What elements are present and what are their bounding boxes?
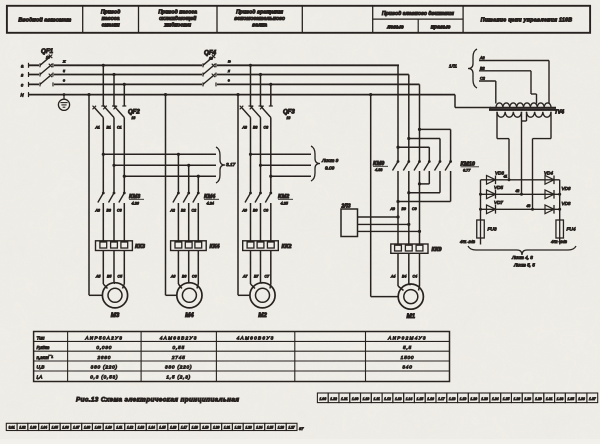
brace sheet ref 3.17 bbox=[216, 147, 236, 183]
wire secondary lead 1 to bridge node 41 bbox=[497, 112, 509, 180]
svg-text:В2: В2 bbox=[480, 66, 486, 70]
circuit breaker QF2 bbox=[93, 106, 141, 120]
header text: Привод насоса смазки bbox=[101, 10, 121, 29]
svg-text:1.18: 1.18 bbox=[192, 426, 198, 430]
wires QF2 to KM3 with labels A1 B1 C1 bbox=[95, 118, 125, 194]
wire M4 neutral bbox=[164, 93, 177, 295]
svg-text:В7: В7 bbox=[254, 275, 259, 279]
svg-text:ж: ж bbox=[62, 60, 66, 64]
svg-text:М4: М4 bbox=[185, 312, 194, 319]
contactor KM3 bbox=[98, 192, 144, 206]
svg-text:1.08: 1.08 bbox=[84, 426, 90, 430]
svg-text:охлаждающей: охлаждающей bbox=[159, 15, 197, 22]
caption Рис.13 bbox=[76, 397, 239, 404]
svg-text:n,мин¯¹: n,мин¯¹ bbox=[37, 354, 54, 360]
svg-text:1.21: 1.21 bbox=[224, 426, 230, 430]
diode VD4 bbox=[544, 171, 554, 185]
svg-text:4АМ60В6У3: 4АМ60В6У3 bbox=[237, 335, 275, 340]
svg-text:Привод вращения: Привод вращения bbox=[236, 10, 283, 16]
wire secondary lead 2 to bridge node 43 bbox=[533, 112, 552, 210]
svg-text:А5: А5 bbox=[95, 275, 100, 279]
node 42 bbox=[516, 189, 524, 196]
svg-text:В9: В9 bbox=[402, 207, 406, 211]
svg-text:3.17: 3.17 bbox=[226, 162, 236, 168]
svg-text:В5: В5 bbox=[107, 275, 111, 279]
svg-text:правые: правые bbox=[431, 24, 451, 30]
svg-text:VD5: VD5 bbox=[494, 185, 503, 190]
svg-text:QF1: QF1 bbox=[41, 48, 54, 55]
svg-text:С7: С7 bbox=[265, 275, 271, 279]
svg-text:0,55: 0,55 bbox=[173, 345, 185, 350]
svg-text:1.10: 1.10 bbox=[363, 397, 370, 401]
svg-text:2660: 2660 bbox=[96, 355, 111, 360]
svg-text:N: N bbox=[21, 93, 25, 98]
svg-text:жидкости: жидкости bbox=[163, 23, 191, 29]
header zone table bbox=[7, 6, 590, 33]
svg-text:1.16: 1.16 bbox=[427, 397, 434, 401]
svg-text:А1: А1 bbox=[95, 126, 100, 130]
svg-text:0,3 (0,53): 0,3 (0,53) bbox=[90, 375, 118, 380]
svg-text:U,В: U,В bbox=[37, 365, 45, 370]
svg-text:А2: А2 bbox=[170, 209, 175, 213]
svg-text:КК2: КК2 bbox=[282, 244, 293, 250]
svg-text:1.19: 1.19 bbox=[202, 426, 208, 430]
svg-text:в: в bbox=[21, 73, 24, 78]
svg-text:смазки: смазки bbox=[102, 23, 121, 29]
svg-text:1.27: 1.27 bbox=[289, 426, 295, 430]
svg-text:В0: В0 bbox=[253, 209, 257, 213]
svg-text:42: 42 bbox=[516, 189, 520, 193]
wire bus phase C bbox=[28, 82, 420, 87]
svg-text:АИР92М4У3: АИР92М4У3 bbox=[387, 335, 427, 340]
wire cross-feed phase B to KM10 bbox=[407, 137, 440, 162]
svg-text:1.19: 1.19 bbox=[460, 397, 467, 401]
svg-text:1.23: 1.23 bbox=[481, 397, 488, 401]
wires KM2 to KK2 labels A0 B0 C0 bbox=[242, 203, 271, 241]
svg-text:1.15: 1.15 bbox=[159, 426, 165, 430]
svg-text:340: 340 bbox=[402, 365, 412, 370]
svg-text:АИР50А2У3: АИР50А2У3 bbox=[84, 335, 123, 340]
svg-text:4.24: 4.24 bbox=[207, 202, 214, 206]
svg-text:1.12: 1.12 bbox=[127, 426, 133, 430]
svg-text:насоса: насоса bbox=[102, 16, 120, 22]
contactor KM10 bbox=[424, 160, 479, 172]
wire M4 branch drops from tap lines bbox=[177, 153, 200, 193]
svg-text:1.31: 1.31 bbox=[546, 397, 553, 401]
svg-text:С4: С4 bbox=[413, 275, 418, 279]
node 43 bbox=[527, 204, 535, 211]
header text: Привод насоса охлаждающей жидкости bbox=[158, 10, 197, 29]
svg-text:С6: С6 bbox=[192, 275, 197, 279]
tap wires to sheet 3.17 bbox=[102, 153, 216, 178]
svg-text:1.22: 1.22 bbox=[235, 426, 241, 430]
svg-text:43: 43 bbox=[527, 204, 531, 208]
svg-text:QF3: QF3 bbox=[283, 110, 295, 116]
svg-text:1.25: 1.25 bbox=[267, 426, 273, 430]
svg-text:1.28: 1.28 bbox=[524, 397, 531, 401]
svg-text:QF4: QF4 bbox=[204, 50, 217, 57]
svg-text:1.25: 1.25 bbox=[503, 397, 510, 401]
svg-text:97: 97 bbox=[299, 426, 304, 431]
svg-text:А6: А6 bbox=[170, 275, 175, 279]
svg-text:1.33: 1.33 bbox=[557, 397, 564, 401]
svg-text:М2: М2 bbox=[258, 312, 267, 319]
svg-text:1.11: 1.11 bbox=[116, 426, 122, 430]
svg-text:С3: С3 bbox=[117, 209, 122, 213]
svg-text:2Л3: 2Л3 bbox=[341, 204, 351, 210]
fuse FU3 bbox=[477, 220, 497, 238]
svg-text:Р,кВт: Р,кВт bbox=[37, 345, 50, 350]
wire M1 neutral bbox=[369, 93, 398, 297]
svg-text:1.35: 1.35 bbox=[567, 397, 574, 401]
svg-text:Лист 5, 5: Лист 5, 5 bbox=[513, 263, 535, 268]
svg-text:Привод насоса: Привод насоса bbox=[158, 10, 197, 16]
svg-text:левые: левые bbox=[386, 24, 404, 30]
wire bus drop phase B to KM9 bbox=[408, 75, 410, 162]
svg-text:Привод: Привод bbox=[101, 10, 121, 16]
transformer TV4 core bbox=[489, 110, 564, 116]
svg-text:В2: В2 bbox=[181, 209, 185, 213]
svg-text:16: 16 bbox=[287, 116, 291, 120]
motor M2 bbox=[250, 283, 275, 319]
wires KM4 to KK4 labels A2 B2 C2 bbox=[170, 203, 199, 241]
svg-text:1.17: 1.17 bbox=[181, 426, 187, 430]
motor M4 bbox=[177, 283, 202, 319]
svg-text:С2: С2 bbox=[480, 77, 486, 81]
svg-text:0,090: 0,090 bbox=[96, 345, 112, 350]
bridge row 1 wire bbox=[481, 179, 560, 181]
svg-text:1.09: 1.09 bbox=[95, 426, 101, 430]
svg-text:Питание цепи управления 110В: Питание цепи управления 110В bbox=[481, 18, 573, 24]
svg-text:Привод главного движения: Привод главного движения bbox=[382, 11, 454, 17]
node labels a b c N left ends bbox=[21, 63, 25, 97]
svg-text:В4: В4 bbox=[402, 275, 406, 279]
wire FU4 output +24V bbox=[551, 238, 568, 245]
svg-text:1.15: 1.15 bbox=[417, 397, 424, 401]
node 41 bbox=[504, 175, 511, 182]
tap wires to sheet 9.09 bbox=[249, 153, 311, 178]
svg-text:С5: С5 bbox=[118, 275, 123, 279]
terminal strip bottom left bbox=[6, 423, 304, 431]
svg-text:А8: А8 bbox=[242, 126, 247, 130]
svg-text:16: 16 bbox=[132, 116, 136, 120]
svg-text:1.06: 1.06 bbox=[62, 426, 68, 430]
svg-text:1.09: 1.09 bbox=[352, 397, 359, 401]
svg-text:1.22: 1.22 bbox=[330, 397, 337, 401]
svg-text:1.13: 1.13 bbox=[138, 426, 144, 430]
wire bus phase B bbox=[28, 72, 409, 77]
wire stub B2 to TV4 tap bbox=[479, 66, 537, 103]
svg-text:VD8: VD8 bbox=[562, 201, 571, 206]
svg-text:А0: А0 bbox=[242, 209, 247, 213]
svg-text:41: 41 bbox=[504, 175, 508, 179]
svg-text:1.29: 1.29 bbox=[535, 397, 542, 401]
transformer TV4 secondary windings bbox=[497, 112, 551, 117]
brace sheet ref Лист 4,5 bbox=[468, 246, 576, 268]
wire labels A9 B9 C9 bbox=[390, 207, 417, 211]
ground electrode symbol on N bus bbox=[58, 93, 69, 110]
wires KK3 to motor M3 labels A5 B5 C5 bbox=[95, 251, 124, 289]
svg-text:380 (220): 380 (220) bbox=[165, 365, 192, 370]
svg-text:1.16: 1.16 bbox=[170, 426, 176, 430]
svg-text:Лист 9: Лист 9 bbox=[321, 158, 339, 164]
svg-text:С8: С8 bbox=[264, 126, 269, 130]
svg-text:380 (220): 380 (220) bbox=[91, 365, 118, 370]
svg-text:VD3: VD3 bbox=[495, 171, 504, 176]
svg-text:1.04: 1.04 bbox=[41, 426, 47, 430]
bridge row 2 wire bbox=[481, 193, 560, 195]
header text: Вводной автомат bbox=[18, 17, 71, 24]
svg-text:3.01: 3.01 bbox=[9, 426, 15, 430]
header text: левые bbox=[386, 24, 404, 30]
svg-text:Рис.13 Схема электрическая при: Рис.13 Схема электрическая принципиальна… bbox=[76, 397, 239, 404]
svg-text:I,А: I,А bbox=[37, 375, 43, 380]
svg-text:6.77: 6.77 bbox=[463, 169, 471, 173]
svg-text:5,5: 5,5 bbox=[403, 345, 412, 350]
svg-text:А2: А2 bbox=[479, 56, 486, 60]
diode VD6 bbox=[545, 186, 571, 199]
wires KK2 to motor M2 bbox=[242, 251, 271, 289]
svg-text:А3: А3 bbox=[95, 209, 100, 213]
svg-text:4.26: 4.26 bbox=[132, 202, 140, 206]
header text: Питание цепи управления 110В bbox=[481, 18, 573, 24]
svg-text:КК9: КК9 bbox=[432, 247, 443, 253]
wire labels after QF4 bbox=[227, 60, 231, 83]
bridge plus rail wire bbox=[558, 180, 561, 220]
svg-text:4.38: 4.38 bbox=[375, 168, 383, 172]
circuit breaker QF1 bbox=[39, 48, 54, 86]
svg-text:А7: А7 bbox=[242, 275, 248, 279]
svg-text:В1: В1 bbox=[107, 126, 111, 130]
svg-text:VD6: VD6 bbox=[562, 186, 571, 191]
svg-text:о: о bbox=[63, 79, 65, 83]
svg-text:1500: 1500 bbox=[401, 355, 415, 360]
svg-text:с: с bbox=[21, 82, 24, 87]
svg-text:16: 16 bbox=[209, 57, 213, 61]
wire bus phase A bbox=[28, 63, 399, 68]
wires KM3 to KK3 labels A3 B3 C3 bbox=[95, 203, 125, 241]
contactor KM9 bbox=[373, 160, 421, 172]
svg-text:и: и bbox=[63, 69, 65, 73]
svg-text:4Л1 -24В: 4Л1 -24В bbox=[460, 240, 476, 244]
svg-text:VD7: VD7 bbox=[494, 200, 503, 205]
svg-text:э: э bbox=[228, 79, 230, 83]
svg-text:1,5 (2,3): 1,5 (2,3) bbox=[166, 375, 191, 380]
svg-text:16: 16 bbox=[46, 56, 50, 60]
svg-text:4Л2 +24В: 4Л2 +24В bbox=[551, 240, 568, 244]
svg-text:1.05: 1.05 bbox=[52, 426, 58, 430]
motor data table bbox=[34, 332, 450, 382]
svg-text:1.20: 1.20 bbox=[213, 426, 219, 430]
svg-text:VD4: VD4 bbox=[544, 171, 553, 176]
svg-text:С2: С2 bbox=[192, 209, 197, 213]
svg-text:1.26: 1.26 bbox=[278, 426, 284, 430]
svg-text:1.14: 1.14 bbox=[149, 426, 155, 430]
svg-text:1.12: 1.12 bbox=[384, 397, 391, 401]
svg-text:В8: В8 bbox=[253, 126, 257, 130]
wire cross-feed phase C to KM10 bbox=[418, 128, 451, 162]
thermal relay KK2 bbox=[243, 241, 293, 251]
wire KM10 output 3 crossover to phase A wire bbox=[396, 171, 450, 203]
wire bus N bbox=[28, 92, 455, 97]
svg-text:FU4: FU4 bbox=[567, 227, 576, 233]
wire FU3 output -24V bbox=[460, 238, 481, 245]
svg-text:С1: С1 bbox=[117, 126, 122, 130]
wire cross-feed phase A to KM10 bbox=[396, 146, 429, 162]
svg-text:1.23: 1.23 bbox=[245, 426, 251, 430]
wire stub C2 to TV4 bbox=[479, 77, 496, 104]
svg-text:Вводной автомат: Вводной автомат bbox=[18, 17, 71, 24]
svg-text:А4: А4 bbox=[390, 275, 395, 279]
wire labels after QF1 bbox=[62, 60, 66, 83]
wire KM10 output 2 to phase B wire bbox=[407, 171, 440, 194]
wires KM9 outputs down to motor bbox=[398, 171, 420, 244]
svg-text:1.37: 1.37 bbox=[589, 397, 596, 401]
svg-text:1.21: 1.21 bbox=[341, 397, 348, 401]
motor M3 bbox=[102, 283, 127, 319]
wire secondary centre tap to bridge node 42 bbox=[522, 112, 527, 195]
svg-text:я: я bbox=[227, 69, 230, 73]
bridge minus rail wire bbox=[479, 180, 482, 220]
svg-text:4АМ63В2У3: 4АМ63В2У3 bbox=[160, 335, 198, 340]
svg-text:9.09: 9.09 bbox=[325, 166, 335, 172]
svg-text:1.24: 1.24 bbox=[256, 426, 262, 430]
svg-text:Лист 4, 8: Лист 4, 8 bbox=[511, 255, 533, 260]
wires KK4 to motor M4 labels A6 B6 C6 bbox=[170, 251, 198, 289]
svg-text:ю: ю bbox=[228, 60, 231, 64]
svg-text:С9: С9 bbox=[412, 207, 417, 211]
contactor KM2 bbox=[245, 192, 293, 206]
thermal relay KK9 bbox=[391, 244, 443, 253]
svg-text:М1: М1 bbox=[406, 313, 415, 320]
svg-text:вспомогательного: вспомогательного bbox=[234, 16, 285, 22]
svg-text:ТV4: ТV4 bbox=[555, 110, 565, 116]
svg-text:1.13: 1.13 bbox=[395, 397, 402, 401]
brace incoming lines 1Л1 bbox=[449, 49, 477, 88]
motor M1 bbox=[398, 284, 423, 320]
svg-text:1.24: 1.24 bbox=[492, 397, 499, 401]
svg-text:валка: валка bbox=[252, 23, 267, 29]
terminal strip right bbox=[317, 393, 597, 403]
circuit breaker QF3 bbox=[240, 106, 296, 120]
svg-text:1.10: 1.10 bbox=[105, 426, 111, 430]
svg-text:М3: М3 bbox=[111, 312, 120, 319]
header text: правые bbox=[431, 24, 451, 30]
wire bus drop phase A to KM9 bbox=[397, 65, 399, 161]
bridge row 3 wire bbox=[481, 208, 560, 210]
svg-text:а: а bbox=[21, 63, 24, 68]
svg-text:1.18: 1.18 bbox=[449, 397, 456, 401]
svg-text:QF2: QF2 bbox=[128, 110, 140, 116]
diode VD7 bbox=[487, 200, 504, 214]
wires QF3 to KM2 labels A8 B8 C8 bbox=[242, 118, 271, 194]
thermal relay KK3 bbox=[96, 241, 146, 251]
wire M3 neutral bbox=[87, 93, 102, 295]
wire M3 branch phase drops bbox=[102, 64, 126, 106]
scan noise overlay (decorative) bbox=[0, 0, 1, 1]
svg-text:1.11: 1.11 bbox=[374, 397, 380, 401]
svg-text:1.06: 1.06 bbox=[319, 397, 326, 401]
svg-text:1.03: 1.03 bbox=[30, 426, 36, 430]
wire KM10 output 1 crossover to phase C wire bbox=[418, 171, 429, 185]
svg-text:В3: В3 bbox=[107, 209, 111, 213]
header text: Привод главного движения bbox=[382, 11, 454, 17]
svg-text:А9: А9 bbox=[390, 207, 395, 211]
svg-text:В6: В6 bbox=[182, 275, 186, 279]
fuse FU4 bbox=[556, 220, 576, 238]
circuit breaker QF4 bbox=[202, 50, 217, 87]
wire bus drop phase C to KM9 bbox=[419, 84, 421, 161]
svg-text:Тип: Тип bbox=[37, 335, 45, 340]
svg-text:1.02: 1.02 bbox=[19, 426, 25, 430]
wire M2 neutral bbox=[236, 93, 250, 295]
thermal relay KK4 bbox=[171, 241, 221, 251]
svg-text:1.07: 1.07 bbox=[73, 426, 79, 430]
wire M2 branch phase drops bbox=[249, 64, 273, 106]
wires KK9 to motor M1 bbox=[390, 253, 420, 290]
header text: Привод вращения вспомогательного валка bbox=[234, 10, 285, 29]
wires 2Л3 block to motor phases bbox=[358, 215, 422, 233]
svg-text:КК4: КК4 bbox=[210, 244, 221, 250]
wire N feed to TV4 primary bbox=[455, 95, 491, 108]
svg-text:FU3: FU3 bbox=[488, 227, 497, 233]
svg-text:1Л1: 1Л1 bbox=[449, 64, 457, 69]
brake rectifier block 2Л3 bbox=[341, 204, 358, 237]
diode VD3 bbox=[487, 171, 505, 185]
svg-text:2745: 2745 bbox=[171, 355, 186, 360]
svg-text:1.20: 1.20 bbox=[470, 397, 477, 401]
brace sheet ref Лист 9 bbox=[311, 146, 339, 181]
svg-text:1.26: 1.26 bbox=[514, 397, 521, 401]
contactor KM4 bbox=[173, 192, 219, 206]
svg-text:КК3: КК3 bbox=[135, 244, 146, 250]
svg-text:4.25: 4.25 bbox=[281, 202, 289, 206]
svg-text:1.17: 1.17 bbox=[438, 397, 445, 401]
table text bbox=[37, 335, 427, 379]
diode VD5 bbox=[487, 185, 504, 199]
transformer TV4 primary winding bbox=[490, 103, 556, 108]
svg-text:1.14: 1.14 bbox=[406, 397, 413, 401]
diode VD8 bbox=[545, 201, 571, 214]
svg-text:1.36: 1.36 bbox=[578, 397, 585, 401]
wire stub A2 to TV4 bbox=[479, 56, 549, 104]
svg-text:С0: С0 bbox=[264, 209, 269, 213]
